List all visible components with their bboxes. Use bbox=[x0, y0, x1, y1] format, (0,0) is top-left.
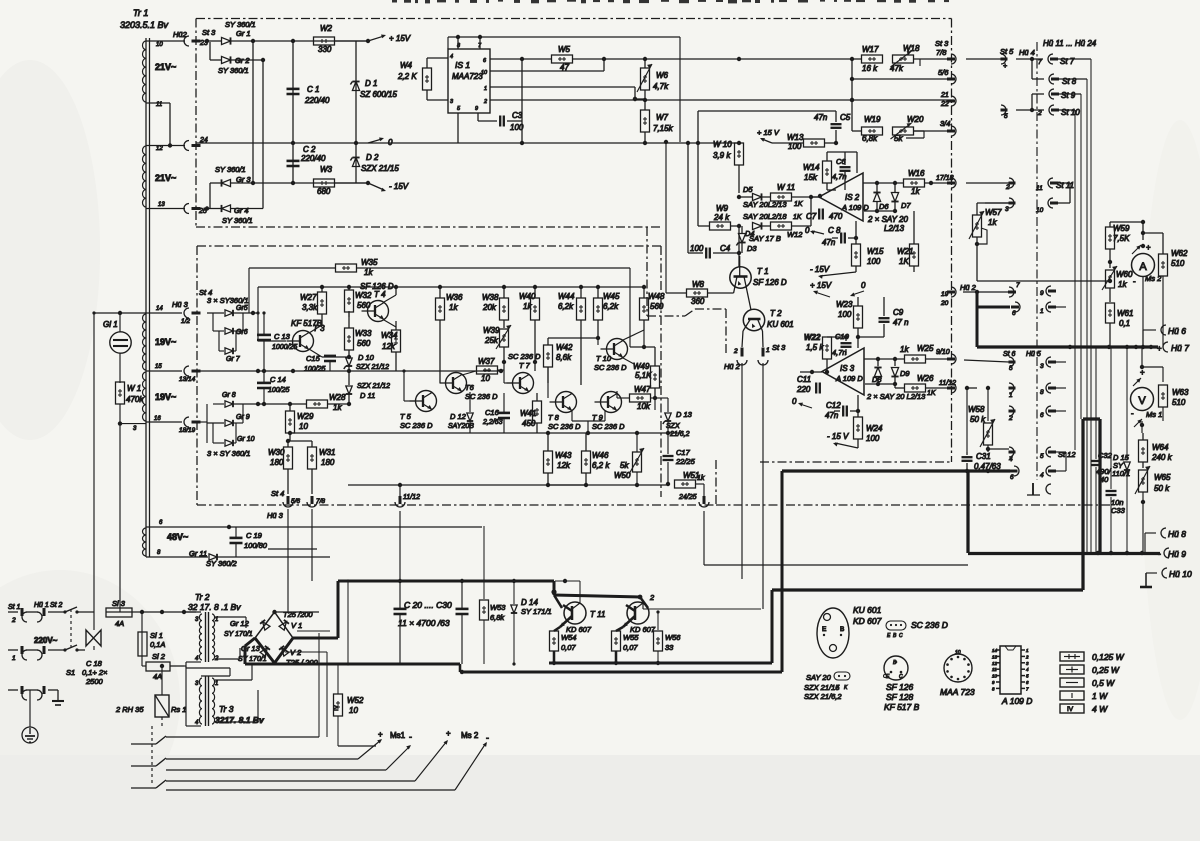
resistor W37 10 bbox=[462, 357, 504, 383]
resistor W62 510 bbox=[1141, 231, 1188, 347]
wire box around IS1 section bbox=[448, 36, 680, 38]
resistor W17 16k bbox=[862, 45, 883, 73]
svg-text:W22: W22 bbox=[804, 333, 821, 342]
thick emitter bus y663 bbox=[549, 661, 772, 665]
resistor W22 1,5k bbox=[804, 333, 832, 374]
IS1 pin9 wire and capacitor C3 100 bbox=[478, 59, 524, 145]
svg-text:St 3: St 3 bbox=[202, 28, 216, 37]
svg-text:SY 360/1: SY 360/1 bbox=[225, 20, 256, 29]
resistor W32 560 bbox=[345, 285, 373, 317]
wire IS3 inverting input bbox=[800, 370, 822, 374]
wire ammeter bottom bbox=[1142, 276, 1144, 347]
0 arrow IS3 bbox=[850, 281, 866, 296]
resistor W51 1k bbox=[675, 471, 705, 497]
svg-text:510: 510 bbox=[1172, 398, 1186, 407]
svg-text:2: 2 bbox=[1037, 110, 1042, 117]
fuse Si2 4A bbox=[142, 652, 184, 681]
svg-text:6,2k: 6,2k bbox=[558, 302, 574, 311]
svg-text:C17: C17 bbox=[676, 448, 691, 457]
svg-text:10: 10 bbox=[955, 650, 961, 656]
connector 11/12 bottom bbox=[395, 483, 420, 507]
wire Gl1 column bbox=[92, 311, 146, 612]
wire T11 collector to bus bbox=[555, 581, 580, 603]
svg-text:W 1: W 1 bbox=[127, 384, 141, 393]
svg-text:W53: W53 bbox=[490, 603, 506, 612]
wire W45 to T10 base bbox=[598, 338, 611, 345]
thyristor V2 T25/200 on bridge bbox=[279, 646, 318, 667]
capacitor C14 100/25 bbox=[257, 371, 290, 406]
svg-text:5: 5 bbox=[1004, 113, 1008, 120]
svg-text:Gr 12: Gr 12 bbox=[230, 619, 250, 628]
lamp Gl 1 bbox=[103, 313, 131, 353]
wire 48V top bbox=[146, 525, 482, 529]
svg-text:SF 128: SF 128 bbox=[886, 692, 914, 702]
wire W36 to T6 base bbox=[440, 371, 450, 383]
svg-text:W39: W39 bbox=[483, 326, 500, 335]
svg-text:+: + bbox=[1157, 344, 1162, 353]
svg-text:Gr6: Gr6 bbox=[236, 329, 248, 336]
connector Hue3 1/2 bbox=[146, 288, 212, 325]
resistor W11 1K bbox=[770, 183, 819, 208]
wires below St4 bottom connectors bbox=[288, 509, 312, 612]
resistor W30 180 bbox=[268, 439, 293, 494]
wire voltmeter top from bus bbox=[1140, 347, 1163, 382]
svg-text:10: 10 bbox=[481, 70, 488, 76]
connector 5/6 row bbox=[852, 68, 956, 84]
svg-text:W57: W57 bbox=[985, 208, 1002, 217]
svg-text:47k: 47k bbox=[890, 64, 904, 73]
svg-text:2: 2 bbox=[1005, 184, 1010, 191]
svg-text:12: 12 bbox=[992, 661, 998, 666]
svg-text:20: 20 bbox=[940, 300, 949, 307]
svg-text:A 109 D: A 109 D bbox=[1001, 696, 1032, 706]
transformer Tr1 winding 19V upper bbox=[143, 314, 177, 370]
svg-text:180: 180 bbox=[321, 458, 335, 467]
svg-text:T 7: T 7 bbox=[519, 361, 531, 370]
diode Gr13 SY170/1 on bridge bbox=[238, 644, 270, 663]
wire: 0V rail from connector 24 bbox=[196, 141, 741, 146]
diode Gr11 SY 360/2 bbox=[146, 549, 268, 568]
wire amp top rail y287 bbox=[258, 285, 646, 289]
svg-text:1k: 1k bbox=[988, 218, 997, 227]
svg-text:C 13: C 13 bbox=[274, 332, 291, 341]
diode Gr1 SY360/1 bbox=[207, 20, 256, 45]
capacitor C16 2,2/63 bbox=[482, 393, 510, 433]
svg-text:11 × 4700 /63: 11 × 4700 /63 bbox=[398, 618, 450, 628]
diode Gr3 SY360/1 bbox=[210, 165, 255, 187]
earth ground symbol circle bbox=[22, 727, 38, 743]
resistor W49 5,1K bbox=[630, 330, 660, 398]
resistor W38 20k bbox=[482, 287, 509, 328]
svg-text:Hü 3: Hü 3 bbox=[172, 300, 189, 309]
svg-text:8,6k: 8,6k bbox=[556, 353, 572, 362]
wire C32 branch bbox=[1091, 347, 1113, 553]
resistor W61 0,1 bbox=[1106, 288, 1134, 347]
wire W49 W47 node down to D13 bbox=[655, 398, 668, 410]
svg-text:W54: W54 bbox=[561, 633, 576, 642]
capacitor C2 220/40 bbox=[287, 143, 327, 183]
svg-text:22/25: 22/25 bbox=[675, 457, 696, 466]
connector row 4-5 St12 bbox=[1009, 447, 1077, 463]
svg-text:Gr 8: Gr 8 bbox=[222, 392, 236, 399]
svg-text:C4: C4 bbox=[720, 244, 731, 253]
svg-text:470: 470 bbox=[829, 212, 843, 221]
svg-text:Tr 3: Tr 3 bbox=[219, 704, 234, 714]
svg-text:W40: W40 bbox=[519, 292, 536, 301]
svg-text:W17: W17 bbox=[862, 45, 879, 54]
wire T8 T9 emitters join bbox=[572, 411, 605, 435]
svg-text:W27: W27 bbox=[300, 293, 317, 302]
IS1 pin10 wire bbox=[490, 59, 604, 71]
svg-text:3: 3 bbox=[1005, 206, 1009, 213]
svg-text:110/1: 110/1 bbox=[1112, 469, 1130, 478]
dash-dot border: amplifier box bbox=[197, 246, 716, 505]
right column connector row1 bbox=[1040, 286, 1056, 297]
svg-text:Hü 2: Hü 2 bbox=[724, 362, 741, 371]
connector +Hue7 arrow bbox=[1157, 342, 1189, 353]
capacitor C8 47n bbox=[805, 226, 858, 247]
svg-text:1k: 1k bbox=[523, 302, 532, 311]
wire W26 left bbox=[895, 384, 904, 388]
svg-text:W43: W43 bbox=[555, 451, 572, 460]
resistor W28 1k bbox=[288, 393, 351, 412]
label SAY 20L2/13 bbox=[743, 200, 787, 209]
svg-text:9/10: 9/10 bbox=[936, 349, 950, 356]
svg-text:100/25: 100/25 bbox=[268, 387, 290, 394]
svg-text:15k: 15k bbox=[804, 173, 818, 182]
svg-text:510: 510 bbox=[1171, 259, 1185, 268]
capacitor C10 4,7n bbox=[832, 332, 852, 357]
svg-text:KU 601: KU 601 bbox=[767, 320, 794, 329]
svg-text:10: 10 bbox=[156, 42, 163, 48]
svg-text:Hü 7: Hü 7 bbox=[1171, 343, 1189, 353]
wire W22 C10 top joins W23 node bbox=[827, 335, 858, 348]
svg-text:2: 2 bbox=[1025, 654, 1029, 659]
potentiometer W57 1k bbox=[969, 203, 1002, 281]
svg-text:-: - bbox=[1158, 549, 1161, 559]
svg-text:16 k: 16 k bbox=[862, 64, 878, 73]
svg-text:+ 15V: + 15V bbox=[389, 34, 411, 43]
svg-text:4,7k: 4,7k bbox=[653, 82, 669, 91]
relay actuation dashed line bbox=[151, 726, 153, 784]
svg-text:V 1: V 1 bbox=[291, 621, 302, 630]
connector pair St3 Hue2 below T2 bbox=[724, 343, 786, 371]
resistor W12 1K bbox=[771, 195, 814, 239]
connector Hue6 bbox=[1143, 325, 1186, 347]
svg-text:1k: 1k bbox=[364, 268, 373, 277]
label Hue11 ... Hue24 bbox=[1043, 39, 1097, 48]
svg-text:W52: W52 bbox=[347, 696, 364, 705]
mains switch S1 bbox=[63, 607, 94, 677]
svg-text:12k: 12k bbox=[557, 461, 571, 470]
svg-text:+: + bbox=[1146, 243, 1151, 252]
resistor W8 360 bbox=[666, 280, 734, 306]
IS3 output wire bbox=[864, 357, 904, 361]
diode Gr7 bbox=[219, 331, 241, 363]
connector St 9 bbox=[966, 89, 1081, 110]
wire: +15V rail bbox=[253, 39, 368, 43]
svg-text:5/6: 5/6 bbox=[291, 498, 300, 505]
dash-dot vertical: connector column separator bbox=[1036, 42, 1038, 480]
svg-text:T6: T6 bbox=[465, 383, 475, 392]
IS1 pin8/7 wires to top bbox=[456, 35, 482, 49]
svg-text:2500: 2500 bbox=[85, 677, 104, 686]
transistor T5 SC 236 D bbox=[400, 268, 437, 430]
svg-text:6,8k: 6,8k bbox=[862, 134, 878, 143]
svg-text:12k: 12k bbox=[382, 342, 396, 351]
svg-text:100: 100 bbox=[866, 434, 880, 443]
connector 24 bbox=[184, 137, 208, 151]
svg-text:W15: W15 bbox=[867, 247, 884, 256]
svg-text:47n: 47n bbox=[822, 238, 836, 247]
capacitor C7 470 bbox=[806, 207, 843, 221]
connector Hue2 St3 pin 23 bbox=[173, 28, 216, 47]
wire St5 column link bbox=[965, 59, 967, 101]
label SAY 20 package bbox=[806, 672, 850, 691]
transistor T1 SF 126 D bbox=[730, 256, 787, 310]
svg-text:W5: W5 bbox=[558, 45, 571, 54]
wire Tr3 sec to bridge bbox=[215, 664, 258, 722]
svg-text:21V~: 21V~ bbox=[155, 173, 176, 183]
svg-text:Tr 1: Tr 1 bbox=[133, 8, 148, 18]
svg-text:+ 15V: + 15V bbox=[810, 281, 832, 290]
thick bus y672 bbox=[460, 664, 782, 674]
svg-text:IV: IV bbox=[334, 705, 340, 711]
svg-text:W33: W33 bbox=[355, 329, 372, 338]
svg-text:10: 10 bbox=[992, 674, 998, 679]
resistor W44 6,2k bbox=[558, 287, 586, 385]
potentiometer W65 50k bbox=[1135, 466, 1171, 553]
svg-text:W 11: W 11 bbox=[777, 183, 795, 192]
wire: rectifier - rail vertical bbox=[262, 60, 264, 209]
connector row 1-8 bbox=[1009, 383, 1067, 399]
svg-text:Hü 10: Hü 10 bbox=[1169, 569, 1192, 579]
svg-text:1,5 k: 1,5 k bbox=[806, 343, 824, 352]
svg-text:470k: 470k bbox=[126, 395, 144, 404]
resistor W26 1K bbox=[895, 374, 956, 397]
resistor W40 1k bbox=[519, 287, 540, 362]
connector row 2-6 bbox=[1008, 406, 1066, 422]
svg-text:SF 126 D: SF 126 D bbox=[753, 278, 787, 287]
svg-text:Gr 4: Gr 4 bbox=[234, 206, 249, 215]
wire W40 to T7 bbox=[533, 360, 537, 371]
resistor W33 560 bbox=[345, 317, 373, 359]
output transistor 2 KD607 bbox=[623, 593, 656, 634]
capacitor C12 47n bbox=[825, 401, 860, 420]
svg-text:5k: 5k bbox=[894, 134, 903, 143]
svg-text:Hü 11 ... Hü 24: Hü 11 ... Hü 24 bbox=[1043, 39, 1097, 48]
diode Gr12 SY170/1 on bridge bbox=[224, 619, 270, 638]
package outline KU601 KD607 TO-3 bbox=[817, 605, 882, 658]
bridge rectifier diamond bbox=[255, 612, 293, 663]
connector 17/18 St3 bbox=[936, 175, 956, 188]
svg-text:St 9: St 9 bbox=[1061, 91, 1076, 100]
svg-text:2: 2 bbox=[11, 617, 16, 624]
svg-text:C 2: C 2 bbox=[303, 145, 316, 154]
diode Gr5 bbox=[207, 305, 258, 316]
resistor W3 680 bbox=[314, 165, 371, 196]
svg-text:SY 360/1: SY 360/1 bbox=[215, 165, 246, 174]
wire Tr2 primary top bbox=[184, 612, 201, 614]
svg-text:47n: 47n bbox=[814, 113, 828, 122]
svg-text:Ms 2: Ms 2 bbox=[1145, 274, 1162, 283]
connector 3/4 row bbox=[906, 119, 956, 138]
svg-text:W28: W28 bbox=[329, 393, 346, 402]
op-amp IS3 A 109 D bbox=[822, 348, 864, 395]
diode Gr4 SY360/1 bbox=[207, 183, 263, 225]
svg-text:14: 14 bbox=[156, 306, 163, 312]
svg-text:SY 360/2: SY 360/2 bbox=[206, 559, 238, 568]
svg-text:W 10: W 10 bbox=[713, 140, 732, 149]
wire IS3 top pin from W23/C10 bbox=[857, 340, 859, 348]
legend wattage 1W bbox=[1060, 691, 1108, 701]
svg-text:W50: W50 bbox=[614, 471, 631, 480]
zener diode D2 SZX 21/15 bbox=[350, 143, 399, 183]
thick riser x782 bbox=[780, 471, 783, 672]
svg-text:3: 3 bbox=[1040, 363, 1044, 370]
op-amp IC IS1 MAA723 bbox=[448, 37, 490, 113]
svg-text:D 13: D 13 bbox=[676, 410, 693, 419]
svg-text:7,15k: 7,15k bbox=[653, 124, 674, 133]
svg-text:C32: C32 bbox=[1098, 451, 1113, 460]
svg-text:2: 2 bbox=[483, 99, 487, 105]
svg-text:0,1A: 0,1A bbox=[150, 640, 165, 649]
resistor W29 10 bbox=[286, 404, 315, 441]
svg-text:100: 100 bbox=[690, 244, 704, 253]
svg-text:W48: W48 bbox=[648, 292, 665, 301]
svg-text:W7: W7 bbox=[656, 113, 669, 122]
capacitor C6 4,7n bbox=[832, 152, 851, 186]
resistor W15 100 bbox=[852, 244, 885, 272]
wire D6 D7 bottom to IS2 - input bbox=[864, 205, 897, 213]
capacitor C1 220/40 bbox=[287, 41, 331, 143]
resistor W25 1k bbox=[900, 344, 956, 364]
svg-text:24 k: 24 k bbox=[713, 213, 730, 222]
svg-text:7/8: 7/8 bbox=[316, 498, 325, 505]
thick output riser x1083 bbox=[1083, 419, 1100, 590]
wire bottom rail y485 bbox=[348, 433, 668, 487]
svg-text:6,2k: 6,2k bbox=[603, 302, 619, 311]
svg-text:B: B bbox=[840, 626, 844, 633]
voltmeter Ms 1 bbox=[1131, 388, 1163, 420]
svg-text:13: 13 bbox=[992, 654, 998, 659]
potentiometer W39 25k bbox=[483, 325, 511, 364]
wire W52 to contact bbox=[327, 737, 376, 746]
svg-text:D7: D7 bbox=[901, 201, 911, 210]
resistor W59 7,5k bbox=[1106, 224, 1131, 268]
svg-text:180: 180 bbox=[270, 458, 284, 467]
wire earth column bbox=[29, 690, 31, 727]
connector 18/19 bbox=[146, 404, 207, 443]
voltmeter lower switch bbox=[1134, 419, 1144, 433]
connector St 11 row bbox=[966, 178, 1074, 192]
svg-text:5: 5 bbox=[1009, 365, 1013, 372]
wire meter top rail bbox=[1110, 220, 1145, 240]
resistor W53 6,8k bbox=[480, 526, 507, 664]
wire: x680 continues to amp box bottom bbox=[679, 268, 681, 433]
svg-text:SC 236 D: SC 236 D bbox=[400, 421, 433, 430]
resistor W13 100 bbox=[772, 133, 838, 151]
resistor W21 1K bbox=[856, 211, 919, 272]
wire: Tr1 pin10 to Hue2 connector bbox=[146, 40, 185, 42]
+15V output arrow bbox=[368, 34, 411, 43]
svg-text:1K: 1K bbox=[899, 257, 909, 266]
dash-dot border: regulator box bottom edge bbox=[760, 461, 952, 463]
diode Gr6 bbox=[213, 313, 248, 336]
svg-text:19V~: 19V~ bbox=[155, 392, 176, 402]
svg-text:10: 10 bbox=[1036, 207, 1044, 214]
thick bus y471 bbox=[782, 469, 1010, 473]
svg-text:SAY 17 B: SAY 17 B bbox=[749, 234, 781, 243]
diode D5 SAY20 bbox=[737, 185, 770, 201]
label 2x SAY 20L2/13 IS3 bbox=[866, 392, 926, 401]
-15V arrow lower left bbox=[810, 265, 856, 279]
resistor W19 6,8k bbox=[852, 115, 883, 143]
resistor W31 180 bbox=[288, 441, 335, 494]
svg-text:+ 15 V: + 15 V bbox=[757, 128, 780, 137]
svg-text:C 1: C 1 bbox=[307, 85, 319, 94]
svg-text:T 4: T 4 bbox=[374, 290, 386, 299]
svg-text:IS 2: IS 2 bbox=[845, 193, 860, 202]
thick riser x772 bbox=[770, 590, 773, 663]
svg-text:2 RH 35: 2 RH 35 bbox=[115, 705, 144, 714]
legend wattage 0,125W bbox=[1060, 652, 1125, 662]
svg-text:+: + bbox=[378, 730, 383, 739]
IS1 pin6 wire and resistor W5 47 bbox=[490, 45, 852, 72]
svg-text:SZX 21/12: SZX 21/12 bbox=[357, 383, 390, 390]
svg-text:W3: W3 bbox=[320, 165, 333, 174]
wire output collectors right bbox=[643, 597, 761, 609]
arrow to Ms1 - bbox=[386, 745, 411, 770]
transformer Tr1 core bbox=[146, 38, 150, 557]
wire IS2 pin6 down bbox=[855, 221, 857, 244]
thick link to connector 6 bbox=[977, 292, 1020, 317]
svg-text:1k: 1k bbox=[449, 303, 458, 312]
wire T10 emitter down to T9 collector bbox=[617, 358, 634, 391]
svg-text:Si 3: Si 3 bbox=[112, 599, 126, 608]
zener D11 SZX 21/12 bbox=[344, 371, 390, 404]
svg-text:SC 236 D: SC 236 D bbox=[592, 422, 625, 431]
svg-text:11: 11 bbox=[1036, 185, 1043, 192]
resistor W24 100 bbox=[854, 417, 884, 448]
svg-text:4: 4 bbox=[450, 54, 453, 60]
svg-text:7: 7 bbox=[1016, 282, 1020, 289]
svg-text:W4: W4 bbox=[400, 61, 413, 70]
+15V arrow IS3 bbox=[810, 281, 832, 297]
svg-text:W14: W14 bbox=[803, 163, 820, 172]
capacitor C17 22/25 bbox=[663, 433, 696, 486]
transformer Tr 1 label bbox=[120, 8, 169, 30]
voltmeter plus switch bbox=[1133, 367, 1145, 386]
svg-text:W23: W23 bbox=[836, 300, 853, 309]
svg-text:-: - bbox=[486, 733, 489, 743]
wire 24/25 down and right bbox=[704, 511, 968, 565]
potentiometer W18 47k bbox=[890, 44, 949, 73]
svg-text:C: C bbox=[899, 674, 903, 680]
wire contact row bottom bbox=[166, 770, 455, 790]
wire D8 D9 lower rail to IS3 - input bbox=[865, 382, 897, 386]
svg-text:D 2: D 2 bbox=[366, 153, 379, 162]
svg-text:0: 0 bbox=[805, 226, 810, 235]
capacitor bank C20...C30 first bbox=[394, 581, 452, 664]
svg-text:W36: W36 bbox=[446, 293, 463, 302]
svg-text:C11: C11 bbox=[797, 375, 811, 384]
resistor W64 240k bbox=[1139, 433, 1173, 468]
svg-text:6,2 k: 6,2 k bbox=[592, 461, 610, 470]
svg-text:4A: 4A bbox=[153, 672, 162, 681]
svg-text:W6: W6 bbox=[656, 71, 669, 80]
thick bus base drive bbox=[551, 581, 648, 608]
